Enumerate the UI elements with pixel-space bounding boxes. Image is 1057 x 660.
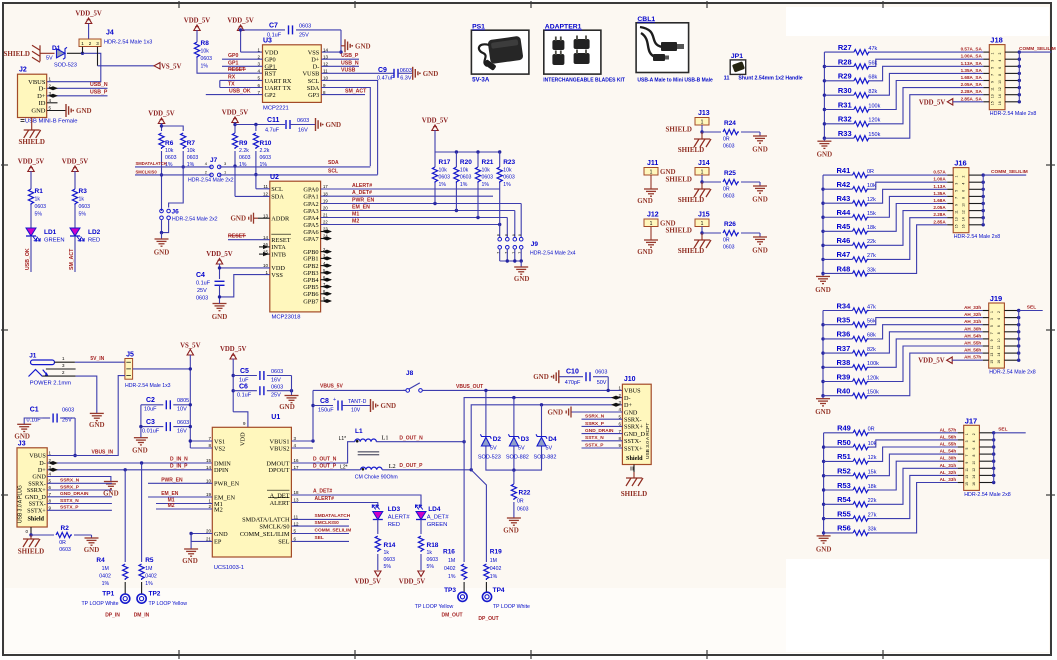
svg-text:1.68A_SA: 1.68A_SA [961, 75, 983, 80]
svg-text:C3: C3 [146, 419, 155, 426]
svg-text:R49: R49 [837, 424, 851, 433]
svg-text:GND: GND [514, 275, 530, 283]
svg-text:L2*: L2* [340, 465, 348, 471]
svg-text:R10: R10 [260, 140, 272, 147]
svg-text:4: 4 [997, 318, 1001, 320]
svg-text:25V: 25V [299, 33, 309, 39]
svg-text:R17: R17 [439, 159, 451, 166]
svg-text:A_DET: A_DET [270, 492, 290, 499]
svg-text:9: 9 [990, 339, 994, 341]
svg-text:SDA: SDA [307, 85, 320, 92]
svg-text:15: 15 [206, 458, 212, 463]
svg-text:100k: 100k [868, 103, 880, 109]
svg-text:D_IN_P: D_IN_P [170, 463, 188, 469]
svg-text:R5: R5 [145, 557, 154, 564]
svg-text:R30: R30 [838, 86, 852, 95]
svg-text:GND: GND [637, 248, 653, 256]
svg-text:D-: D- [39, 86, 46, 93]
svg-text:1%: 1% [490, 574, 498, 580]
svg-text:R37: R37 [837, 344, 851, 353]
svg-text:5V_IN: 5V_IN [90, 356, 104, 362]
svg-text:J17: J17 [965, 416, 978, 425]
svg-text:6.3V: 6.3V [400, 76, 412, 82]
svg-text:2.05A_SA: 2.05A_SA [961, 82, 983, 87]
svg-text:R8: R8 [201, 40, 210, 47]
svg-text:GND: GND [815, 286, 831, 294]
svg-text:AH_31h: AH_31h [964, 319, 981, 324]
svg-text:R6: R6 [165, 140, 174, 147]
svg-text:0603: 0603 [427, 557, 439, 563]
svg-text:R43: R43 [837, 194, 851, 203]
svg-text:47k: 47k [868, 46, 877, 52]
svg-text:15k: 15k [867, 211, 876, 217]
svg-text:14: 14 [997, 353, 1001, 357]
svg-text:0603: 0603 [260, 155, 272, 161]
svg-text:R53: R53 [837, 481, 851, 490]
svg-text:SSRX_P: SSRX_P [585, 421, 605, 427]
svg-text:GPA4: GPA4 [303, 215, 319, 222]
svg-text:SDA: SDA [271, 194, 284, 201]
svg-text:PWR_EN: PWR_EN [352, 198, 374, 204]
svg-text:MCP23018: MCP23018 [272, 315, 301, 321]
svg-text:SSRX_N: SSRX_N [60, 478, 80, 484]
svg-text:GPA3: GPA3 [303, 208, 318, 215]
svg-text:4.7uF: 4.7uF [265, 128, 280, 134]
svg-text:HDR-2.54 Male 2x8: HDR-2.54 Male 2x8 [990, 111, 1037, 117]
svg-text:HDR-2.54 Male 2x8: HDR-2.54 Male 2x8 [989, 370, 1036, 376]
svg-text:15: 15 [991, 101, 995, 105]
svg-text:D_OUT_P: D_OUT_P [399, 463, 423, 469]
svg-text:C6: C6 [239, 383, 248, 390]
svg-text:COMM_SELILIM: COMM_SELILIM [1019, 46, 1056, 52]
svg-text:27k: 27k [868, 512, 877, 518]
svg-text:AH_33h: AH_33h [964, 305, 981, 310]
svg-text:J7: J7 [210, 157, 218, 164]
svg-text:VDD_5V: VDD_5V [919, 99, 946, 106]
svg-text:5: 5 [991, 67, 995, 69]
svg-text:GND: GND [182, 557, 198, 565]
svg-text:0603: 0603 [439, 175, 451, 181]
svg-text:2: 2 [962, 176, 966, 178]
svg-text:ALERT#: ALERT# [315, 496, 335, 502]
svg-text:8: 8 [962, 197, 966, 199]
svg-text:1k: 1k [427, 550, 433, 556]
svg-text:1: 1 [650, 221, 653, 227]
svg-text:13: 13 [991, 94, 995, 98]
svg-text:3: 3 [954, 183, 958, 185]
svg-text:0603: 0603 [723, 144, 735, 150]
svg-text:GPA7: GPA7 [303, 236, 318, 243]
svg-text:USB_N: USB_N [341, 60, 359, 66]
svg-text:R56: R56 [837, 524, 851, 533]
svg-text:R9: R9 [239, 140, 248, 147]
svg-text:18k: 18k [868, 484, 877, 490]
svg-text:LD4: LD4 [428, 506, 441, 513]
svg-text:SHIELD: SHIELD [666, 176, 692, 184]
svg-text:5%: 5% [79, 212, 87, 218]
svg-text:DPOUT: DPOUT [269, 467, 290, 474]
svg-text:R4: R4 [96, 557, 105, 564]
svg-text:15: 15 [965, 482, 969, 486]
svg-text:6: 6 [962, 190, 966, 192]
svg-text:2.2k: 2.2k [260, 148, 270, 154]
svg-text:1.35A: 1.35A [933, 191, 946, 196]
svg-text:7: 7 [497, 252, 501, 254]
svg-text:USB_OK: USB_OK [229, 89, 251, 95]
svg-text:VDD_5V: VDD_5V [227, 18, 254, 25]
svg-text:1M: 1M [490, 558, 497, 564]
svg-text:0603: 0603 [177, 420, 189, 426]
svg-text:R54: R54 [837, 495, 852, 504]
svg-text:R33: R33 [838, 129, 852, 138]
svg-text:9: 9 [991, 81, 995, 83]
svg-text:GND: GND [279, 403, 295, 411]
svg-text:5%: 5% [427, 564, 435, 570]
svg-text:D_OUT_P: D_OUT_P [313, 463, 337, 469]
svg-text:6: 6 [998, 67, 1002, 69]
svg-text:M2: M2 [168, 503, 175, 509]
svg-text:1: 1 [954, 176, 958, 178]
svg-text:GND: GND [816, 545, 832, 553]
svg-text:16: 16 [972, 482, 976, 486]
svg-text:TP4: TP4 [493, 587, 505, 594]
svg-text:11: 11 [965, 468, 969, 472]
svg-text:A_DET#: A_DET# [427, 515, 450, 521]
svg-text:C9: C9 [378, 67, 387, 74]
svg-text:C1: C1 [30, 407, 39, 414]
svg-text:R28: R28 [838, 57, 852, 66]
svg-text:VDD_5V: VDD_5V [399, 579, 426, 586]
svg-text:Shunt 2.54mm 1x2 Handle: Shunt 2.54mm 1x2 Handle [738, 76, 802, 82]
svg-text:12: 12 [962, 210, 966, 214]
svg-text:SSTX_N: SSTX_N [585, 435, 604, 441]
svg-text:1%: 1% [482, 182, 490, 188]
svg-text:2: 2 [998, 53, 1002, 55]
svg-text:M2: M2 [352, 219, 359, 225]
svg-text:UART TX: UART TX [265, 85, 292, 92]
svg-text:VDD_5V: VDD_5V [354, 579, 381, 586]
svg-text:INTA: INTA [271, 244, 286, 251]
svg-text:0R: 0R [867, 169, 874, 175]
svg-text:GND: GND [355, 42, 371, 50]
svg-text:SHIELD: SHIELD [18, 548, 44, 556]
svg-text:0603: 0603 [35, 204, 47, 210]
svg-text:SEL: SEL [278, 539, 289, 546]
svg-text:1.68A: 1.68A [933, 198, 946, 203]
svg-text:CM Choke 90Ohm: CM Choke 90Ohm [355, 474, 398, 480]
svg-text:D+: D+ [624, 402, 632, 409]
svg-text:M2: M2 [214, 506, 223, 513]
svg-text:VDD_5V: VDD_5V [184, 18, 211, 25]
svg-text:GND: GND [31, 108, 45, 115]
svg-text:1%: 1% [439, 182, 447, 188]
svg-text:SHIELD: SHIELD [18, 138, 44, 146]
svg-text:GND: GND [752, 196, 768, 204]
svg-text:0R: 0R [517, 499, 524, 505]
svg-text:VDD_5V: VDD_5V [918, 358, 945, 365]
svg-text:COMM_SELILIM: COMM_SELILIM [991, 169, 1028, 175]
svg-text:16: 16 [962, 224, 966, 228]
svg-text:10k: 10k [439, 168, 448, 174]
svg-text:L1: L1 [355, 428, 363, 435]
svg-text:0603: 0603 [723, 245, 735, 251]
svg-text:1k: 1k [384, 550, 390, 556]
svg-text:SSRX_P: SSRX_P [60, 484, 80, 490]
svg-text:SOD-523: SOD-523 [478, 455, 501, 461]
svg-text:J6: J6 [172, 209, 180, 216]
svg-text:J19: J19 [990, 294, 1003, 303]
svg-text:GND_DRAIN: GND_DRAIN [60, 491, 89, 497]
svg-text:8: 8 [497, 234, 501, 236]
svg-text:1: 1 [701, 170, 704, 176]
svg-text:VBUS_IN: VBUS_IN [92, 449, 114, 455]
svg-text:SHIELD: SHIELD [678, 196, 704, 204]
svg-text:R21: R21 [482, 159, 494, 166]
svg-text:J18: J18 [990, 36, 1003, 45]
svg-text:GND: GND [817, 151, 833, 159]
svg-text:33k: 33k [868, 527, 877, 533]
svg-text:GND: GND [230, 215, 246, 223]
svg-text:GPA2: GPA2 [303, 201, 318, 208]
svg-text:VBUS_5V: VBUS_5V [320, 383, 343, 389]
svg-text:7: 7 [965, 455, 969, 457]
svg-text:0402: 0402 [444, 566, 456, 572]
svg-text:GND: GND [132, 447, 148, 455]
svg-text:1: 1 [991, 53, 995, 55]
svg-text:D-: D- [313, 64, 320, 71]
svg-text:1.35A_SA: 1.35A_SA [961, 68, 983, 73]
svg-text:5V: 5V [490, 446, 497, 452]
svg-text:ALERT: ALERT [270, 500, 290, 507]
svg-text:10k: 10k [460, 168, 469, 174]
svg-text:J16: J16 [954, 159, 967, 168]
svg-text:SSTX_P: SSTX_P [585, 442, 604, 448]
svg-text:SHIELD: SHIELD [666, 227, 692, 235]
svg-text:GND: GND [547, 409, 563, 417]
svg-text:SMDATALATCH: SMDATALATCH [136, 161, 167, 166]
svg-text:5: 5 [954, 190, 958, 192]
svg-text:2: 2 [972, 433, 976, 435]
svg-text:SSRX_N: SSRX_N [585, 414, 605, 420]
svg-text:HDR-2.54 Male 2x8: HDR-2.54 Male 2x8 [964, 492, 1011, 498]
svg-text:0R: 0R [723, 137, 730, 143]
svg-text:10k: 10k [201, 49, 210, 55]
svg-text:0603: 0603 [271, 369, 283, 375]
svg-text:VDD: VDD [240, 432, 247, 446]
svg-text:R14: R14 [384, 542, 396, 549]
svg-text:R16: R16 [443, 549, 455, 556]
svg-text:16V: 16V [271, 378, 281, 384]
svg-text:R18: R18 [427, 542, 439, 549]
svg-text:SMCLKIS0: SMCLKIS0 [315, 520, 340, 526]
svg-text:56k: 56k [867, 319, 876, 325]
svg-text:18k: 18k [867, 225, 876, 231]
svg-text:SHIELD: SHIELD [678, 146, 704, 154]
svg-text:7: 7 [512, 252, 516, 254]
svg-text:0.01uF: 0.01uF [142, 428, 160, 434]
svg-text:J2: J2 [19, 67, 27, 74]
svg-text:AL_33h: AL_33h [940, 477, 957, 482]
svg-text:SMCLK/S0: SMCLK/S0 [259, 523, 289, 530]
svg-text:14: 14 [962, 217, 966, 221]
svg-text:VDD: VDD [265, 49, 279, 56]
svg-text:2.2k: 2.2k [239, 148, 249, 154]
svg-text:6: 6 [997, 325, 1001, 327]
svg-text:Shield: Shield [27, 516, 44, 523]
svg-text:150k: 150k [867, 390, 879, 396]
svg-text:13: 13 [965, 475, 969, 479]
svg-text:VDD_5V: VDD_5V [222, 110, 249, 117]
svg-text:0603: 0603 [384, 557, 396, 563]
svg-text:TP LOOP White: TP LOOP White [493, 604, 530, 610]
svg-text:MCP2221: MCP2221 [263, 106, 289, 112]
svg-text:R22: R22 [519, 490, 531, 497]
svg-text:J15: J15 [698, 212, 710, 219]
svg-text:INTB: INTB [271, 251, 286, 258]
svg-text:USB-A Male to Mini USB-B Male: USB-A Male to Mini USB-B Male [637, 77, 713, 83]
svg-text:J11: J11 [647, 160, 658, 167]
svg-text:0603: 0603 [62, 408, 74, 414]
svg-text:0R: 0R [723, 187, 730, 193]
svg-text:C7: C7 [269, 23, 278, 30]
svg-text:M1: M1 [352, 212, 359, 218]
svg-text:TANT-D: TANT-D [348, 399, 367, 405]
svg-text:0603: 0603 [165, 155, 177, 161]
svg-text:R20: R20 [460, 159, 472, 166]
svg-text:C5: C5 [240, 368, 249, 375]
svg-text:8: 8 [504, 234, 508, 236]
svg-text:J9: J9 [531, 241, 539, 248]
svg-text:R23: R23 [503, 159, 515, 166]
svg-text:1%: 1% [102, 581, 110, 587]
svg-text:0603: 0603 [196, 296, 208, 302]
svg-text:10k: 10k [187, 148, 196, 154]
svg-text:GND: GND [815, 408, 831, 416]
svg-text:150uF: 150uF [318, 408, 334, 414]
svg-text:A_DET#: A_DET# [313, 488, 332, 494]
svg-text:GND: GND [533, 373, 549, 381]
svg-text:120k: 120k [868, 118, 880, 124]
svg-text:GPB6: GPB6 [303, 291, 318, 298]
svg-text:GND: GND [752, 247, 768, 255]
svg-text:7: 7 [518, 252, 522, 254]
svg-text:0603: 0603 [79, 204, 91, 210]
svg-text:R46: R46 [837, 236, 851, 245]
svg-text:RED: RED [88, 238, 100, 244]
svg-text:J3: J3 [18, 440, 26, 447]
svg-text:50V: 50V [597, 380, 607, 386]
svg-text:USB MINI-B Female: USB MINI-B Female [25, 119, 78, 125]
svg-text:0402: 0402 [490, 566, 502, 572]
svg-text:21: 21 [206, 537, 212, 542]
svg-text:EM_EN: EM_EN [352, 205, 370, 211]
svg-text:R31: R31 [838, 100, 852, 109]
svg-text:0.57A: 0.57A [933, 170, 946, 175]
svg-text:GPB7: GPB7 [303, 298, 318, 305]
svg-text:HDR-2.54 Male 1x3: HDR-2.54 Male 1x3 [104, 40, 152, 46]
svg-text:R38: R38 [837, 358, 851, 367]
svg-text:U3: U3 [263, 38, 272, 45]
svg-text:TX: TX [228, 82, 235, 88]
svg-text:LD3: LD3 [388, 506, 401, 513]
svg-text:SCL: SCL [328, 168, 338, 174]
svg-text:TP1: TP1 [102, 590, 114, 597]
svg-text:D_OUT_N: D_OUT_N [313, 456, 337, 462]
svg-text:R40: R40 [837, 387, 851, 396]
svg-text:L1*: L1* [339, 436, 347, 442]
svg-text:GPA0: GPA0 [303, 186, 318, 193]
svg-text:VBUS_OUT: VBUS_OUT [456, 384, 483, 390]
svg-text:DP_IN: DP_IN [105, 612, 120, 618]
svg-text:5V: 5V [46, 56, 53, 62]
svg-text:5: 5 [965, 447, 969, 449]
svg-text:22k: 22k [867, 239, 876, 245]
svg-text:10k: 10k [867, 183, 876, 189]
svg-text:RED: RED [388, 522, 400, 528]
svg-text:USB 3.0 A PLUG: USB 3.0 A PLUG [18, 485, 24, 523]
svg-text:+: + [333, 397, 336, 403]
svg-text:LD2: LD2 [88, 229, 101, 236]
svg-text:GND: GND [624, 409, 638, 416]
svg-text:14: 14 [206, 465, 212, 470]
svg-text:SSTX+: SSTX+ [624, 445, 643, 452]
svg-text:Shield: Shield [626, 455, 643, 462]
svg-text:0603: 0603 [299, 24, 311, 30]
svg-text:7: 7 [990, 332, 994, 334]
svg-text:R47: R47 [837, 250, 851, 259]
svg-text:0.57A_SA: 0.57A_SA [961, 47, 983, 52]
svg-text:13: 13 [990, 353, 994, 357]
svg-text:8: 8 [998, 74, 1002, 76]
svg-text:100k: 100k [867, 361, 879, 367]
svg-text:6: 6 [972, 447, 976, 449]
svg-text:0603: 0603 [187, 155, 199, 161]
svg-text:0.1uF: 0.1uF [237, 392, 252, 398]
svg-text:AH_56h: AH_56h [964, 348, 981, 353]
svg-text:0603: 0603 [400, 68, 412, 74]
svg-text:VBUS: VBUS [624, 388, 641, 395]
svg-text:1.00A: 1.00A [933, 177, 946, 182]
svg-text:SHIELD: SHIELD [678, 247, 704, 255]
svg-text:5%: 5% [35, 212, 43, 218]
svg-text:0603: 0603 [297, 118, 309, 124]
svg-text:ID: ID [39, 100, 46, 107]
svg-text:R34: R34 [837, 301, 852, 310]
svg-text:7: 7 [991, 74, 995, 76]
svg-text:ALERT#: ALERT# [388, 515, 411, 521]
svg-text:DM_OUT: DM_OUT [442, 613, 463, 619]
svg-text:10uF: 10uF [144, 407, 157, 413]
svg-text:VDD_5V: VDD_5V [206, 251, 233, 258]
svg-text:2: 2 [997, 311, 1001, 313]
svg-text:GND_DRAIN: GND_DRAIN [585, 428, 614, 434]
svg-text:R45: R45 [837, 222, 851, 231]
svg-text:R24: R24 [724, 120, 736, 127]
svg-text:GP0: GP0 [265, 57, 276, 64]
svg-text:R48: R48 [837, 264, 851, 273]
svg-text:EP: EP [214, 539, 222, 546]
svg-text:COMM_SEL/ILIM: COMM_SEL/ILIM [240, 531, 290, 538]
svg-text:82k: 82k [867, 347, 876, 353]
svg-text:RESET: RESET [228, 234, 246, 240]
svg-text:C10: C10 [566, 369, 579, 376]
svg-text:11: 11 [724, 76, 730, 82]
svg-text:J10: J10 [624, 376, 636, 383]
svg-text:0603: 0603 [460, 175, 472, 181]
svg-text:U2: U2 [270, 174, 279, 181]
svg-text:AL_57h: AL_57h [940, 427, 957, 432]
svg-text:RESET: RESET [271, 237, 290, 244]
